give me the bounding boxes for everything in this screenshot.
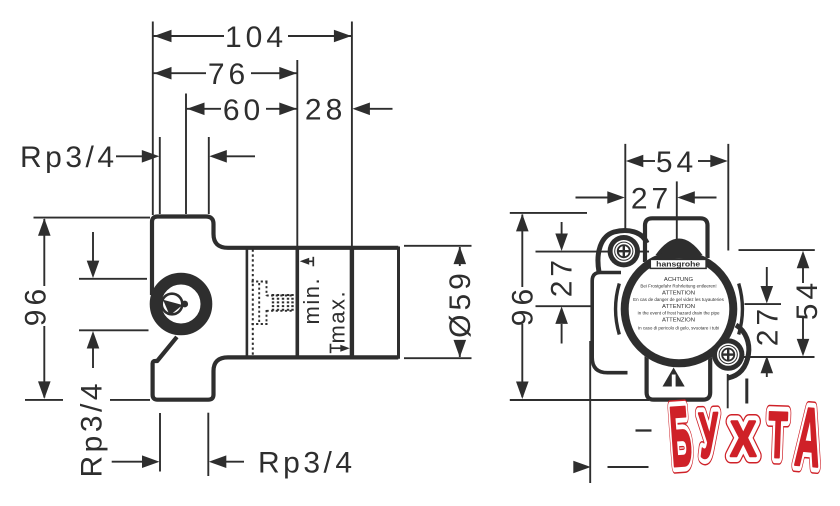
Rp3/4 top leader arrows (116, 155, 143, 157)
right view: center extension left (536, 305, 594, 307)
right view: top-left wing (598, 231, 647, 272)
left view: dotted sleeve line (252, 250, 254, 356)
right view: cover ring (625, 255, 734, 364)
left view: extension line Rp3/4 port left (159, 137, 161, 214)
right view: top extension line of 96 (510, 212, 587, 214)
dimension 54 right line (802, 268, 804, 283)
svg-text:min.: min. (299, 277, 324, 325)
right view: bottom extension line of 96 (510, 399, 649, 401)
bottom Rp3/4 dim arrows (112, 461, 143, 463)
right view: cover top tab (656, 239, 703, 256)
dimension 27 right text (752, 305, 785, 346)
diameter 59 text (444, 269, 477, 338)
min text (299, 277, 324, 325)
left view: internal plane min (295, 248, 299, 357)
dimension 96 line right figure (521, 215, 523, 288)
svg-text:Б: Б (667, 389, 695, 485)
left view: body outline top run (152, 217, 398, 296)
watermark BUHTA red fill (667, 389, 825, 485)
svg-text:Rp3/4: Rp3/4 (76, 380, 109, 478)
dimension 28 arrow (368, 108, 393, 110)
left view: sleeve solid line (246, 250, 249, 356)
svg-text:28: 28 (305, 94, 346, 127)
right view: bottom leader arrow (608, 466, 649, 468)
left view: extension line max plane (104/28 dims) (351, 22, 353, 248)
right view: bottom left extension vertical (589, 341, 591, 483)
right view: cover bottom arrow tab (663, 368, 685, 387)
right view: extension line left ear axis (624, 144, 626, 232)
left view: dotted spindle hatch block (273, 294, 293, 313)
svg-text:60: 60 (223, 94, 264, 127)
right view: cover disc white fill (621, 251, 738, 368)
watermark BUHTA red outer rim (667, 389, 825, 485)
svg-text:Bei Frostgefahr Rohrleitung en: Bei Frostgefahr Rohrleitung entleeren! (640, 284, 716, 289)
svg-text:А: А (792, 390, 825, 485)
right view: right extension bottom (ear axis) (737, 356, 815, 358)
svg-text:Т: Т (767, 398, 789, 472)
svg-text:max.: max. (325, 290, 350, 344)
left view: dotted spindle outline (252, 282, 294, 325)
svg-text:Rp3/4: Rp3/4 (258, 447, 356, 480)
svg-text:ATTENZION: ATTENZION (662, 318, 695, 324)
left view: bottom port extension lines (159, 413, 161, 472)
dimension 27 left arrows (561, 222, 563, 234)
hansgrohe label box (650, 259, 706, 268)
svg-text:27: 27 (752, 305, 785, 346)
svg-text:In caso di pericolo di gelo, s: In caso di pericolo di gelo, svuotare i … (638, 325, 719, 330)
right view: top boss (645, 218, 708, 262)
dimension 96 text left (20, 285, 53, 326)
left view: extension line Rp3/4 port right (208, 137, 210, 214)
dimension 60 line (187, 108, 222, 110)
left view: side port dim arrows (Rp3/4) (92, 232, 94, 261)
svg-text:54: 54 (656, 146, 697, 179)
svg-text:Ø59: Ø59 (444, 269, 477, 338)
diameter 59 dim line (459, 247, 461, 266)
svg-text:104: 104 (225, 21, 287, 54)
dimension 27 top arrows (576, 197, 608, 199)
left view: port ring (156, 279, 207, 330)
svg-text:ATTENTION: ATTENTION (662, 304, 695, 310)
svg-text:Х: Х (730, 411, 756, 467)
diameter 59 extension lines (404, 245, 472, 247)
left view: side port dim extension lines (79, 278, 147, 280)
svg-text:96: 96 (507, 285, 540, 326)
right view: bottom-right wing (728, 325, 749, 378)
right view: flange plate visible edges (592, 273, 627, 373)
dimension 96 line left (43, 219, 45, 286)
svg-text:hansgrohe: hansgrohe (656, 260, 700, 269)
right view: ear axis extension left (536, 251, 650, 253)
right view: extension line right ear axis (727, 144, 729, 251)
dimension 104 line (154, 35, 225, 37)
dimension 27 left text (546, 256, 579, 297)
svg-text:ATTENTION: ATTENTION (662, 291, 695, 297)
right view: top-left ear screw (608, 235, 640, 267)
svg-text:27: 27 (631, 182, 672, 215)
svg-text:У: У (698, 399, 720, 472)
right view: extension line center axis (676, 181, 678, 240)
dimension 27 right arrows (766, 267, 768, 287)
dimension 96 text right figure (507, 285, 540, 326)
left view: body right edge (397, 247, 400, 359)
svg-text:En cas de danger de gel videz: En cas de danger de gel videz les tuyaut… (633, 297, 725, 302)
left view: extension line min plane (76/60/28 dims) (296, 60, 298, 247)
svg-text:Rp3/4: Rp3/4 (20, 141, 118, 174)
svg-text:54: 54 (791, 279, 824, 320)
left view: top extension line of 96 dim (34, 217, 151, 219)
attention text block (633, 277, 725, 331)
left view: spindle circle (162, 294, 183, 315)
left view: spindle dot (181, 301, 188, 308)
min arrow (303, 260, 313, 262)
dimension 54 right text (791, 279, 824, 320)
watermark BUHTA white outline (667, 389, 825, 485)
svg-text:In the event of frost hazard d: In the event of frost hazard drain the p… (637, 311, 720, 316)
right view: flange plate bottom-right corner edge (745, 379, 748, 404)
max arrow (331, 347, 343, 349)
left view: body outline bottom run with notch (153, 337, 399, 400)
left view: spindle lever (163, 300, 183, 316)
left view: extension line flange left edge (104 dim) (152, 22, 154, 216)
left view: internal plane max (350, 248, 354, 357)
svg-text:96: 96 (20, 285, 53, 326)
right view: cover left crescent (616, 284, 620, 335)
dimension 54 top line (643, 160, 655, 162)
max text (325, 290, 350, 344)
right view: lower vertical extension through bottom ear (727, 374, 729, 408)
dimension 76 line (154, 72, 207, 74)
right view: small dash (636, 429, 652, 431)
label Rp3/4 rotated left (76, 380, 109, 478)
left view: extension line port axis (60 dim) (185, 94, 187, 215)
svg-text:ACHTUNG: ACHTUNG (664, 277, 694, 283)
right view: bottom boss (647, 352, 711, 400)
svg-text:27: 27 (546, 256, 579, 297)
right view: right extension center (745, 303, 782, 305)
right view: cover right crescent (739, 284, 743, 335)
right view: bottom-right ear screw (712, 338, 744, 370)
left view: bottom extension line of 96 dim (25, 399, 63, 401)
svg-text:76: 76 (208, 58, 249, 91)
right view: right extension top (ear axis) (739, 249, 815, 251)
